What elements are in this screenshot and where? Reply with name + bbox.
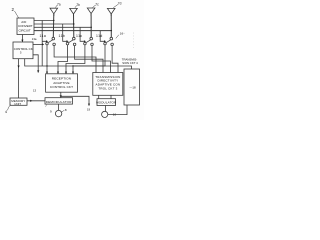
switch 6b pole — [73, 37, 76, 40]
wire antenna2 stem — [73, 14, 75, 37]
svg-text:13: 13 — [33, 89, 37, 93]
svg-text:CIRCUIT: CIRCUIT — [19, 29, 31, 33]
arrow rx2 — [57, 72, 59, 74]
switch 6d lever — [106, 40, 110, 43]
wire tx chain4 — [112, 46, 118, 73]
svg-text:CONVERT: CONVERT — [18, 24, 33, 28]
wire microphone to box18 — [108, 105, 127, 115]
svg-text:—18: —18 — [130, 86, 136, 90]
svg-text:11c: 11c — [76, 34, 83, 38]
switch 6d throw R — [111, 43, 114, 46]
label 7d leader — [113, 4, 118, 7]
svg-text:MODULATOR: MODULATOR — [96, 101, 117, 105]
wire rx chain2 — [58, 45, 68, 74]
arrow rx4 — [72, 72, 74, 74]
wire control to switch row — [33, 43, 42, 45]
antenna 7c — [87, 8, 95, 16]
label 16 leader — [116, 35, 119, 39]
arrow into switch 6c — [84, 40, 86, 42]
svg-text:11b: 11b — [59, 34, 66, 38]
label 2 leader — [15, 11, 20, 19]
wire control to reception box — [33, 55, 38, 73]
label 4 leader — [8, 105, 11, 111]
wire rx chain3 — [66, 45, 85, 74]
svg-text:7a: 7a — [57, 3, 61, 7]
wire modulator to microphone — [104, 106, 106, 112]
label 7c leader — [93, 5, 96, 7]
svg-text:11d: 11d — [96, 34, 103, 38]
svg-text:SION CKT 4: SION CKT 4 — [122, 61, 138, 65]
arrow into switch 6d — [104, 40, 106, 42]
wire rx chain1 — [46, 45, 48, 74]
arrow down on memory wire — [18, 66, 20, 69]
wire control bus 4 — [34, 30, 111, 32]
svg-text:13a: 13a — [32, 37, 37, 41]
wire memory to demodulator — [27, 100, 45, 102]
svg-text:7b: 7b — [76, 3, 80, 7]
svg-text:4: 4 — [5, 110, 7, 114]
switch 6c lever — [86, 40, 90, 43]
box 15 modulator — [97, 99, 116, 106]
box 14 demodulator — [45, 98, 73, 104]
svg-text:A/D: A/D — [21, 20, 27, 24]
label 7 tick — [45, 105, 48, 107]
junction bus1-stem1 — [53, 20, 54, 21]
wire transmission to modulator b — [110, 95, 112, 98]
switch 6d throw L — [104, 42, 107, 45]
wire control bus 1 — [34, 21, 54, 67]
wire antenna1 stem — [52, 14, 55, 38]
wire demodulator to speaker — [57, 104, 59, 110]
label 9 leader — [61, 110, 65, 113]
wire control to memory — [18, 59, 20, 98]
junction bus2-stem2 — [73, 23, 74, 24]
arrow reception-demodulator — [60, 95, 62, 97]
box 6 memory unit — [10, 98, 27, 105]
arrow rx3 — [65, 72, 67, 74]
junction bus4-stem4 — [111, 30, 112, 31]
svg-text:7d: 7d — [118, 2, 122, 6]
svg-text:ADAPTIVE: ADAPTIVE — [53, 81, 70, 85]
antenna 7d — [107, 8, 115, 16]
svg-text:UNIT: UNIT — [14, 102, 21, 106]
wire tx chain2 — [75, 46, 103, 73]
switch 6b throw R — [73, 43, 76, 46]
switch 6b throw L — [66, 42, 69, 45]
switch 6c throw R — [91, 43, 94, 46]
faint dashes — [132, 33, 134, 49]
wire control bus 3 — [34, 27, 91, 41]
arrow down branch — [88, 104, 90, 106]
wire tx chain3 — [92, 46, 111, 73]
wire reception to demodulator — [60, 92, 62, 98]
svg-text:CONTROL CKT: CONTROL CKT — [50, 85, 73, 89]
svg-text:TROL CKT 3: TROL CKT 3 — [98, 86, 117, 90]
microphone 10 — [102, 111, 108, 117]
wire antenna4 stem — [110, 14, 112, 37]
switch 6c pole — [90, 37, 93, 40]
junction dot — [72, 65, 73, 66]
switch 6b lever — [69, 40, 73, 43]
junction dot — [46, 65, 47, 66]
switch 6d pole — [110, 37, 113, 40]
wire box2 to box5 — [21, 35, 23, 43]
svg-text:10: 10 — [113, 112, 117, 116]
antenna 7a — [50, 8, 58, 16]
wire control bus 2 — [34, 24, 74, 41]
wire transmission to modulator a — [98, 95, 100, 98]
antenna 7b — [70, 8, 78, 16]
arrow into switch 6b — [67, 40, 69, 42]
wire rx chain4 — [73, 45, 105, 74]
wire antenna3 stem — [90, 14, 92, 38]
arrow control-switch1 — [42, 43, 44, 45]
svg-text:7c: 7c — [95, 3, 99, 7]
box 5 control circuit — [13, 42, 33, 59]
arrow down control-reception — [37, 70, 39, 72]
arrow into switch 6a — [46, 40, 48, 42]
arrow box2-box5 — [21, 40, 23, 42]
switch 6a throw R — [53, 43, 56, 46]
junction bus3-stem3 — [91, 27, 92, 28]
speaker 8 — [55, 110, 61, 116]
arrow on memory wire — [30, 100, 32, 102]
box 18 transmission circuit — [124, 69, 140, 105]
svg-text:16: 16 — [120, 31, 124, 35]
box 2 antenna-switch control circuit — [17, 18, 34, 35]
switch 6a lever — [48, 40, 52, 43]
arrow rx1 into reception box — [46, 72, 48, 74]
label 7b leader — [75, 5, 77, 7]
box 3 transmission directivity adaptive control circuit — [93, 73, 123, 96]
label 7a leader — [55, 5, 57, 8]
wire demod branch right — [61, 96, 89, 105]
box 13 reception adaptive control circuit — [46, 74, 78, 92]
svg-text:19: 19 — [87, 108, 91, 112]
switch 6c throw L — [84, 42, 87, 45]
wire tx chain1 — [54, 46, 96, 73]
switch 6a throw L — [46, 42, 49, 45]
wire control bus y66 — [25, 59, 132, 69]
svg-text:DEMODULATOR: DEMODULATOR — [46, 100, 73, 104]
svg-text:11a: 11a — [40, 34, 47, 38]
svg-text:CONTROL CK: CONTROL CK — [14, 47, 33, 51]
switch 6a pole — [52, 37, 55, 40]
